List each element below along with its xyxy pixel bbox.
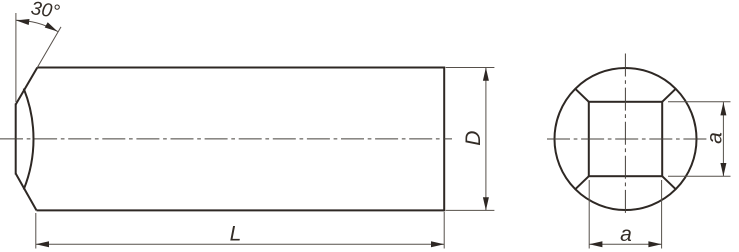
dim a bottom: left extension line [588,180,590,249]
angle dim: left arrowhead [16,19,30,25]
side view: chamfer flat runout arc [24,89,34,190]
end view: square tip outline [589,102,662,176]
side view: cylinder top edge [37,67,444,69]
angle dim: right arrowhead [45,22,58,31]
end view: horizontal centerline [547,138,708,140]
side view: cylinder right end face edge [443,67,445,212]
end view: top-left pyramid corner edge [575,89,589,102]
dim a right: vertical dimension line [722,102,724,176]
side view: bottom chamfer edge (30 deg) [16,174,37,211]
dim D: vertical dimension line [485,68,487,211]
end view: bottom-right pyramid corner edge [662,176,676,189]
side view: cylinder bottom edge [37,209,445,211]
dim a right: top extension line [668,101,731,103]
angle dim: inclined extension line of chamfer [37,27,61,68]
dim L: right arrowhead [431,241,444,247]
end view: outer circle [555,68,697,210]
dim D: bottom extension line [446,209,495,211]
dim a bottom: horizontal dimension line [589,243,661,245]
dim a bottom: left arrowhead [589,241,602,247]
dim a right: bottom arrowhead [720,163,726,176]
angle dim: vertical extension line of tip face [15,13,17,102]
dim L: left extension line [35,213,37,249]
dim L: left arrowhead [36,241,49,247]
end view: vertical centerline [624,54,626,216]
side view: top chamfer edge (30 deg) [16,68,38,105]
svg-text:L: L [230,223,242,246]
dim D: top extension line [446,67,495,69]
end view: top-right pyramid corner edge [662,89,676,102]
dim L: horizontal dimension line [36,243,444,245]
dim a bottom: right arrowhead [648,241,661,247]
svg-text:a: a [620,223,632,246]
dim D: bottom arrowhead [483,197,489,210]
dim a bottom: right extension line [661,180,663,249]
end view: bottom-left pyramid corner edge [575,176,589,189]
svg-text:D: D [462,131,485,146]
dim L: right extension line [443,212,445,249]
dim D: top arrowhead [483,68,489,81]
dim a right: bottom extension line [668,175,731,177]
angle dim: dimension arc 30 deg [16,20,58,31]
side view: flat tip end face edge [15,104,17,175]
svg-text:a: a [704,132,727,144]
side view: horizontal centerline [0,138,452,140]
dim a right: top arrowhead [720,102,726,115]
svg-text:30°: 30° [30,0,62,23]
